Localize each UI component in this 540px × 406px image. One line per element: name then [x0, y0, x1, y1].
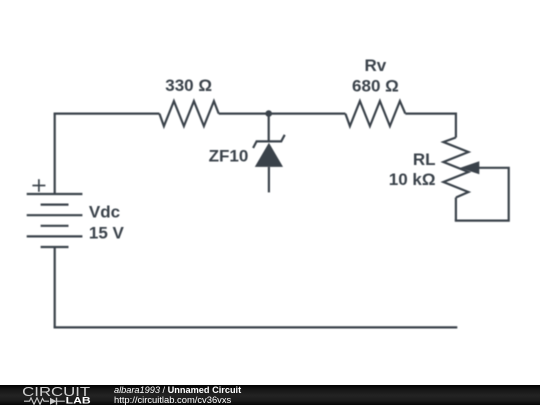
CircuitLab logo squiggle: diode [50, 397, 57, 404]
svg-text:680 Ω: 680 Ω [352, 76, 399, 95]
potentiometer RL wiper arrow head [460, 161, 479, 174]
svg-text:ZF10: ZF10 [209, 147, 249, 166]
resistor R1 330 ohm [159, 101, 218, 126]
svg-text:Vdc: Vdc [89, 203, 120, 222]
credit line: albara1993 / Unnamed Circuit [114, 385, 241, 395]
zener diode D1 cathode bar with bent ends [253, 135, 285, 148]
footer bar [0, 385, 540, 406]
svg-text:Rv: Rv [365, 56, 387, 75]
wire: battery - terminal down to bottom rail [54, 247, 56, 327]
svg-text:330 Ω: 330 Ω [165, 76, 212, 95]
zener diode D1 anode triangle [255, 143, 283, 167]
zener diode D1 bottom lead [268, 167, 270, 193]
battery Vdc plate 3 (long) [27, 214, 83, 216]
battery Vdc plate 4 (short) [41, 225, 69, 227]
svg-text:10 kΩ: 10 kΩ [389, 170, 436, 189]
battery + sign [32, 179, 45, 192]
CircuitLab logo squiggle: resistor [24, 397, 49, 404]
resistor Rv 680 ohm [345, 101, 405, 126]
battery Vdc plate 5 (long) [27, 235, 83, 237]
svg-text:RL: RL [413, 150, 436, 169]
svg-text:LAB: LAB [66, 395, 91, 406]
wire: Rv to top-right corner, down to potentiometer RL [405, 114, 456, 138]
wire: node A to resistor Rv [269, 112, 346, 114]
wire: RL bottom loop to wiper [455, 168, 509, 221]
url line: http://circuitlab.com/cv36vxs [114, 395, 231, 405]
CircuitLab logo squiggle: diode bar and tail [56, 397, 58, 404]
svg-text:15 V: 15 V [89, 224, 125, 243]
wire: RL bottom lead [455, 198, 457, 221]
battery Vdc plate 2 (short) [41, 204, 69, 206]
zener diode D1 top lead (from node A) [268, 114, 270, 142]
potentiometer RL body (vertical zigzag) [443, 138, 468, 198]
node A junction dot [265, 110, 272, 117]
battery Vdc plate 6 (short, -) [41, 246, 69, 248]
wire: top rail, corner to resistor 330 [54, 112, 160, 114]
battery Vdc plate 1 (long, +) [27, 193, 83, 195]
wire: resistor 330 to node A [219, 112, 269, 114]
wire: battery + terminal up to top-left corner [54, 114, 56, 194]
wire: bottom rail [54, 326, 458, 328]
